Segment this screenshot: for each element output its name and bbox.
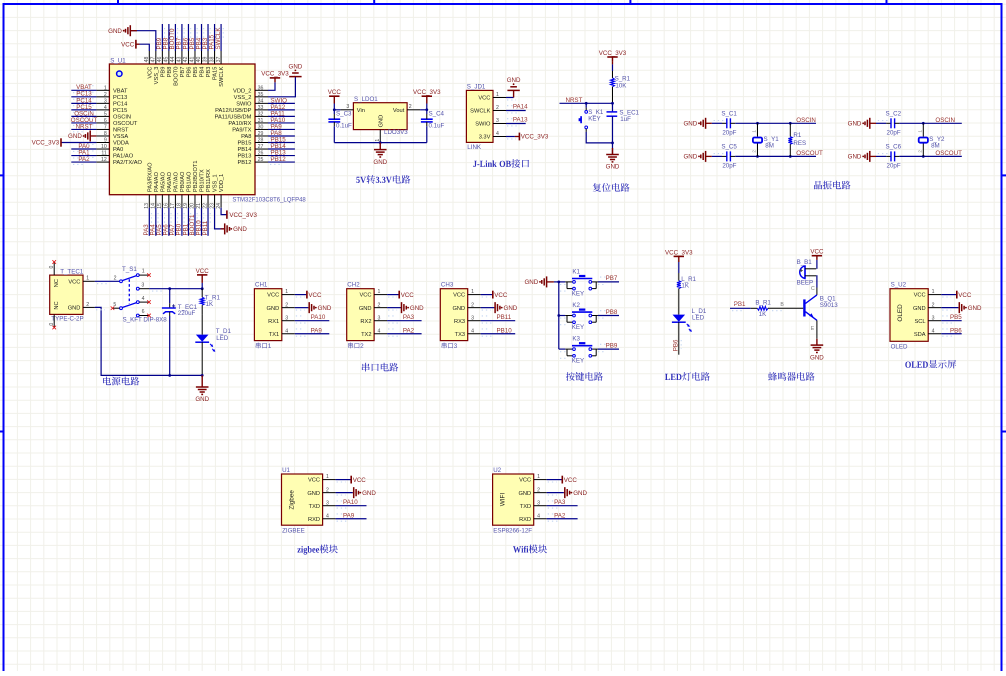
svg-text:VCC: VCC <box>68 279 80 285</box>
svg-text:1: 1 <box>285 289 288 295</box>
MCU right pin 25 PB12 <box>237 157 268 166</box>
MCU bottom pin 22 PB11/RX <box>203 169 212 209</box>
MCU right pin 31 PA10/RX <box>228 118 268 127</box>
svg-text:S_C3: S_C3 <box>336 111 352 118</box>
svg-text:GND: GND <box>233 226 247 233</box>
switch pin 1 (NC, X) <box>139 269 151 277</box>
net PA10 (U1 pin 3) <box>336 499 367 508</box>
svg-text:2: 2 <box>471 302 474 308</box>
resistor R1 RES (crystal feedback) <box>788 122 806 158</box>
svg-text:TX1: TX1 <box>269 332 279 338</box>
net PA2 (U2 pin 4) <box>547 512 578 521</box>
net PA13 at JD1 pin3 <box>506 117 528 126</box>
MCU top pin 39 PB3 <box>203 51 212 77</box>
GND (U2) <box>547 487 588 498</box>
svg-text:PB15: PB15 <box>237 141 251 147</box>
svg-text:20pF: 20pF <box>722 129 736 136</box>
switch pin 4 (X) <box>139 296 151 304</box>
svg-text:KEY: KEY <box>572 358 584 365</box>
S_U2 pin 1 VCC <box>914 289 942 299</box>
svg-text:KEY: KEY <box>572 324 584 331</box>
svg-text:OLED: OLED <box>891 344 908 351</box>
wire to OSCOUT <box>735 150 823 157</box>
svg-text:GND: GND <box>913 306 926 312</box>
svg-text:1K: 1K <box>206 301 214 308</box>
svg-text:GND: GND <box>289 63 303 70</box>
svg-text:T_TEC1: T_TEC1 <box>60 268 84 275</box>
GND at MCU pin 23 VSS_1 <box>215 208 248 235</box>
svg-text:PB9: PB9 <box>606 342 618 349</box>
GND at MCU pin 35 VSS_2 <box>268 63 303 97</box>
LDO ground bus wire <box>334 141 427 144</box>
wire + net label PB15 <box>268 136 295 145</box>
svg-text:26: 26 <box>258 151 264 157</box>
svg-text:SWCLK: SWCLK <box>219 66 225 86</box>
title: OLED display <box>905 360 956 369</box>
TEC1 pin 2 GND <box>68 302 95 312</box>
S_U2 pin 4 SDA <box>914 328 941 338</box>
VCC power port at MCU pin 48 <box>121 40 149 51</box>
svg-text:VCC: VCC <box>147 67 153 79</box>
MCU right pin 30 PA9/TX <box>232 125 268 134</box>
svg-text:VCC: VCC <box>328 89 342 96</box>
svg-text:VCC: VCC <box>308 478 320 484</box>
LED T_D1 <box>195 315 231 377</box>
CH2 pin 2 GND <box>359 302 387 312</box>
TEC1 NC pin top <box>49 260 56 275</box>
svg-text:4: 4 <box>471 328 474 334</box>
svg-text:4: 4 <box>285 328 288 334</box>
svg-text:10K: 10K <box>615 83 627 90</box>
svg-text:8M: 8M <box>765 142 774 149</box>
svg-text:VCC: VCC <box>267 293 279 299</box>
net PB9 wire <box>598 342 619 351</box>
connector U2 body <box>493 467 534 535</box>
MCU right pin 34 SWIO <box>236 98 268 107</box>
buzzer B_B1 BEEP <box>797 259 817 286</box>
wire + net label PB5 <box>189 24 197 51</box>
GND (S_C1 side) <box>683 118 711 129</box>
MCU top pin 46 PB9 <box>157 51 166 77</box>
sub label 串口3 <box>442 343 457 349</box>
MCU right pin 27 PB14 <box>237 144 268 153</box>
net PB6 (S_U2 pin 4) <box>941 327 962 336</box>
VCC power port (U1) <box>336 476 367 484</box>
svg-text:VCC_3V3: VCC_3V3 <box>665 250 693 257</box>
wire to OSCIN <box>899 117 961 124</box>
title: reset circuit <box>593 183 630 192</box>
net PA9 (CH1 pin 4) <box>295 327 330 336</box>
wire + net label VBAT <box>71 84 96 93</box>
svg-text:39: 39 <box>203 57 209 63</box>
svg-text:20pF: 20pF <box>722 162 736 169</box>
svg-text:2: 2 <box>86 302 89 308</box>
svg-text:PB1: PB1 <box>734 301 746 308</box>
CH2 pin 4 TX2 <box>361 328 387 338</box>
net PA3 (U2 pin 3) <box>547 499 578 508</box>
GND (S_C5 side) <box>683 151 711 162</box>
svg-text:GND: GND <box>318 305 332 312</box>
MCU bottom pin 24 VDD_1 <box>216 174 225 209</box>
MCU bottom pin 23 VSS_1 <box>209 174 218 208</box>
wire + net label PC13 <box>71 91 96 100</box>
svg-text:1: 1 <box>375 139 381 142</box>
svg-text:PB11: PB11 <box>497 314 512 321</box>
VCC power port (S_U2) <box>941 291 972 299</box>
VCC power port (power circuit) <box>196 268 210 289</box>
connector S_U2 body <box>890 282 928 351</box>
GND at MCU pin 8 VSSA <box>68 130 96 141</box>
capacitor S_C4 0.1uF <box>421 110 445 143</box>
CH1 pin 2 GND <box>267 302 295 312</box>
USB connector T_TEC1 TYPE-C-2P body <box>50 268 84 322</box>
svg-text:VSS_1: VSS_1 <box>213 174 219 192</box>
GND (CH3) <box>481 302 518 313</box>
wire + net label PA4 <box>150 208 158 236</box>
svg-text:RES: RES <box>793 140 806 147</box>
svg-text:TXD: TXD <box>309 504 320 510</box>
svg-text:1uF: 1uF <box>620 116 631 123</box>
wire + net label SWCLK <box>215 24 223 51</box>
svg-text:3.3V: 3.3V <box>479 135 491 141</box>
connector CH2 body <box>347 282 374 341</box>
svg-text:ESP8266-12F: ESP8266-12F <box>493 528 532 535</box>
svg-text:TX2: TX2 <box>361 332 371 338</box>
wire + net label PA8 <box>268 130 295 139</box>
svg-text:1: 1 <box>917 130 922 133</box>
net PB10 (CH3 pin 4) <box>481 327 516 336</box>
svg-text:CH1: CH1 <box>255 282 268 289</box>
capacitor S_C1 20pF <box>712 110 738 136</box>
MCU bottom pin 15 PA5/AO <box>157 171 166 208</box>
svg-text:PB6: PB6 <box>673 339 680 351</box>
wire + net label PB3 <box>202 24 210 51</box>
GND at JD1 pin1 <box>506 77 521 100</box>
svg-text:5: 5 <box>113 302 116 308</box>
MCU right pin 36 VDD_2 <box>233 85 268 94</box>
svg-text:28: 28 <box>258 138 264 144</box>
MCU top pin 42 PB6 <box>183 51 192 77</box>
svg-text:TYPE-C-2P: TYPE-C-2P <box>51 316 83 323</box>
MCU left pin 9 VDDA <box>96 138 129 147</box>
capacitor S_C6 20pF <box>876 143 902 169</box>
svg-text:2: 2 <box>409 104 412 110</box>
TEC1 NC pin bottom <box>49 314 56 329</box>
svg-text:29: 29 <box>258 131 264 137</box>
JD1 pin 3 SWIO <box>475 118 506 128</box>
svg-text:PA10: PA10 <box>343 499 358 506</box>
CH3 pin 3 RX3 <box>454 315 481 325</box>
svg-text:GND: GND <box>378 115 384 128</box>
svg-text:PB11: PB11 <box>202 220 209 235</box>
svg-text:PA7/AO: PA7/AO <box>174 171 180 192</box>
svg-text:GND: GND <box>810 354 824 361</box>
svg-text:OSCOUT: OSCOUT <box>935 150 962 157</box>
svg-text:PB5: PB5 <box>950 314 962 321</box>
svg-text:PA9: PA9 <box>311 327 323 334</box>
svg-text:PA1/AO: PA1/AO <box>113 154 134 160</box>
sub label 串口1 <box>256 343 271 349</box>
wire + net label PC15 <box>71 104 96 113</box>
svg-text:GND: GND <box>195 396 209 403</box>
title: power circuit <box>103 377 139 386</box>
svg-text:6: 6 <box>104 118 107 124</box>
svg-text:27: 27 <box>258 144 264 150</box>
svg-text:44: 44 <box>170 57 176 63</box>
GND (S_C6 side) <box>848 151 876 162</box>
svg-text:4: 4 <box>932 328 935 334</box>
GND (U1) <box>336 487 377 498</box>
LDO pin 2 <box>407 104 420 110</box>
svg-text:VDD_1: VDD_1 <box>219 174 225 192</box>
svg-text:PB14: PB14 <box>237 147 251 153</box>
MCU left pin 2 PC13 <box>96 92 127 101</box>
resistor L_R1 1K <box>677 273 697 315</box>
svg-text:K1: K1 <box>572 269 580 276</box>
svg-text:VCC: VCC <box>914 293 926 299</box>
MCU top pin 47 VSS_3 <box>151 51 160 84</box>
VCC power port (LDO input) <box>328 89 342 111</box>
VCC_3V3 power port at MCU pin 24 VDD_1 <box>221 208 257 219</box>
svg-text:S_C5: S_C5 <box>721 143 737 150</box>
wire + net label PA9 <box>268 123 295 132</box>
wire + net label PB8 <box>163 24 171 51</box>
svg-text:PB11/RX: PB11/RX <box>206 169 212 192</box>
svg-text:BOOT0: BOOT0 <box>174 67 180 86</box>
svg-text:VCC: VCC <box>810 249 824 256</box>
switch pin 5 (X) <box>111 302 120 310</box>
svg-text:2: 2 <box>326 487 329 493</box>
push button K2 KEY <box>559 302 598 331</box>
svg-text:B_B1: B_B1 <box>797 259 813 266</box>
svg-text:PB4: PB4 <box>200 67 206 78</box>
GND (S_C2 side) <box>848 118 876 129</box>
svg-text:KEY: KEY <box>588 116 600 123</box>
svg-text:S_JD1: S_JD1 <box>467 84 486 91</box>
svg-text:RX1: RX1 <box>268 319 279 325</box>
svg-text:NRST: NRST <box>113 128 129 134</box>
wire + net label OSCIN <box>71 110 96 119</box>
svg-text:1: 1 <box>932 289 935 295</box>
svg-text:VCC: VCC <box>958 292 972 299</box>
svg-text:PA15: PA15 <box>213 67 219 81</box>
svg-text:C: C <box>811 286 815 292</box>
net PB5 (S_U2 pin 3) <box>941 314 962 323</box>
svg-text:220uF: 220uF <box>178 310 196 317</box>
wire + net label SWIO <box>268 97 295 106</box>
svg-text:3: 3 <box>346 104 349 110</box>
svg-text:K2: K2 <box>572 302 580 309</box>
svg-text:3: 3 <box>537 500 540 506</box>
MCU bottom pin 17 PA7/AO <box>170 171 179 208</box>
MCU top pin 37 SWCLK <box>216 51 225 87</box>
wire + net label PA1 <box>71 149 96 158</box>
svg-text:40: 40 <box>196 57 202 63</box>
svg-text:GND: GND <box>452 306 465 312</box>
capacitor S_C2 20pF <box>876 110 902 136</box>
svg-text:U1: U1 <box>282 467 290 474</box>
wire + net label PA2 <box>71 156 96 165</box>
svg-text:GND: GND <box>410 305 424 312</box>
svg-text:PA2/TX/AO: PA2/TX/AO <box>113 160 143 166</box>
net PA3 (CH2 pin 3) <box>387 314 422 323</box>
svg-text:Vin: Vin <box>357 108 365 114</box>
svg-text:PC15: PC15 <box>113 108 127 114</box>
MCU left pin 11 PA1/AO <box>96 151 133 160</box>
svg-text:PB6: PB6 <box>950 327 962 334</box>
svg-text:GND: GND <box>683 121 697 128</box>
svg-text:20pF: 20pF <box>887 129 901 136</box>
svg-text:R1: R1 <box>793 132 801 139</box>
svg-text:S_C2: S_C2 <box>886 110 902 117</box>
VCC_3V3 power port (reset) <box>599 50 627 71</box>
svg-text:2: 2 <box>114 276 117 282</box>
svg-text:GND: GND <box>68 133 82 140</box>
svg-text:VCC_3V3: VCC_3V3 <box>229 212 257 219</box>
svg-text:Zigbee: Zigbee <box>289 490 296 510</box>
VCC_3V3 power port at MCU pin 9 VDDA <box>32 138 97 146</box>
svg-text:PA11/USB/DM: PA11/USB/DM <box>215 115 252 121</box>
MCU bottom pin 13 PA3/RX/AO <box>144 162 153 209</box>
svg-text:PB12: PB12 <box>271 156 287 163</box>
title: zigbee module <box>297 545 338 555</box>
net PA2 (CH2 pin 4) <box>387 327 422 336</box>
wire + net label PB4 <box>195 24 203 51</box>
title: 5V to 3.3V circuit <box>356 175 410 184</box>
svg-text:PB9: PB9 <box>160 67 166 78</box>
svg-text:1K: 1K <box>681 283 689 290</box>
svg-text:S_C1: S_C1 <box>721 110 737 117</box>
svg-text:6: 6 <box>142 309 145 315</box>
svg-text:VCC: VCC <box>308 292 322 299</box>
wire + net label PA5 <box>156 208 164 236</box>
MCU right pin 32 PA11/USB/DM <box>215 112 268 121</box>
svg-text:20pF: 20pF <box>887 162 901 169</box>
MCU left pin 1 VBAT <box>96 85 128 94</box>
svg-text:SWCLK: SWCLK <box>215 27 222 50</box>
svg-text:VCC: VCC <box>401 292 415 299</box>
title: buzzer circuit <box>768 372 815 381</box>
svg-text:PB2/BOOT1: PB2/BOOT1 <box>193 160 199 192</box>
svg-text:GND: GND <box>683 154 697 161</box>
title: crystal circuit <box>814 181 851 190</box>
svg-text:48: 48 <box>144 57 150 63</box>
svg-text:1K: 1K <box>759 311 767 318</box>
svg-text:36: 36 <box>258 85 264 91</box>
MCU left pin 8 VSSA <box>96 131 128 140</box>
svg-text:VCC_3V3: VCC_3V3 <box>32 140 60 147</box>
svg-text:S_U1: S_U1 <box>110 57 126 64</box>
svg-text:GND: GND <box>606 164 620 171</box>
VCC power port (U2) <box>547 476 578 484</box>
svg-text:1: 1 <box>752 130 757 133</box>
svg-text:PA0: PA0 <box>113 147 123 153</box>
VCC power port (buzzer) <box>810 249 824 269</box>
net PB6 (vertical label) <box>673 339 682 351</box>
MCU left pin 12 PA2/TX/AO <box>96 157 142 166</box>
svg-text:TXD: TXD <box>520 504 531 510</box>
VCC_3V3 power port (LED) <box>665 250 693 274</box>
svg-text:GND: GND <box>362 490 376 497</box>
svg-text:PC13: PC13 <box>113 95 127 101</box>
wire + net label PA7 <box>169 208 177 236</box>
wire + net label PA0 <box>71 143 96 152</box>
capacitor S_C3 0.1uF <box>328 110 352 143</box>
svg-text:VDD_2: VDD_2 <box>233 88 251 94</box>
U1 pin 2 GND <box>307 487 335 497</box>
push button S_K1 KEY <box>579 103 613 143</box>
svg-text:7: 7 <box>104 125 107 131</box>
svg-text:PC14: PC14 <box>113 101 127 107</box>
svg-text:PA9: PA9 <box>343 512 355 519</box>
svg-text:PB6: PB6 <box>187 67 193 78</box>
svg-text:OSCIN: OSCIN <box>935 117 955 124</box>
svg-text:RXD: RXD <box>519 517 531 523</box>
MCU top pin 41 PB5 <box>190 51 199 77</box>
wire + net label PB10 <box>195 208 203 236</box>
MCU bottom pin 14 PA4/AO <box>151 171 160 208</box>
svg-text:RX3: RX3 <box>454 319 465 325</box>
VCC power port (CH1) <box>295 291 322 299</box>
switch T_S1 S_KFT DIP-8X8 <box>120 266 168 323</box>
svg-text:S_R1: S_R1 <box>615 76 631 83</box>
svg-text:LDO3V3: LDO3V3 <box>384 129 408 136</box>
svg-text:4: 4 <box>496 131 499 137</box>
svg-text:30: 30 <box>258 125 264 131</box>
svg-text:KEY: KEY <box>572 290 584 297</box>
svg-text:PA13: PA13 <box>513 117 528 124</box>
svg-text:PA4/AO: PA4/AO <box>154 171 160 192</box>
svg-text:S_U2: S_U2 <box>891 282 907 289</box>
svg-text:PA14: PA14 <box>513 104 528 111</box>
net PB8 wire <box>598 309 619 318</box>
svg-text:PA3: PA3 <box>554 499 566 506</box>
net PA9 (U1 pin 4) <box>336 512 367 521</box>
wire + net label BOOT0 <box>169 24 177 51</box>
push button K3 KEY <box>559 336 598 365</box>
svg-text:OLED: OLED <box>897 304 904 322</box>
wire + net label PB1 <box>182 208 190 236</box>
title: Wifi module <box>513 545 547 554</box>
MCU top pin 40 PB4 <box>196 51 205 77</box>
title: J-Link OB interface <box>473 159 529 168</box>
GND at MCU pin 47 VSS_3 <box>108 25 156 51</box>
svg-text:B_R1: B_R1 <box>755 300 771 307</box>
svg-text:NRST: NRST <box>566 97 583 104</box>
svg-text:VSS_3: VSS_3 <box>154 67 160 85</box>
svg-text:LINK: LINK <box>467 144 482 151</box>
svg-text:ZIGBEE: ZIGBEE <box>282 528 305 535</box>
MCU top pin 43 PB7 <box>177 51 186 77</box>
svg-text:9: 9 <box>104 138 107 144</box>
svg-text:0.1uF: 0.1uF <box>336 123 352 130</box>
svg-text:GND: GND <box>524 279 538 286</box>
svg-text:VCC: VCC <box>121 41 135 48</box>
svg-text:42: 42 <box>183 57 189 63</box>
wire + net label PB9 <box>156 24 164 51</box>
svg-text:NC: NC <box>54 301 60 309</box>
wire + net label PA10 <box>268 117 295 126</box>
svg-text:3: 3 <box>104 98 107 104</box>
svg-text:STM32F103C8T6_LQFP48: STM32F103C8T6_LQFP48 <box>232 198 306 204</box>
MCU bottom pin 21 PB10/TX <box>196 169 205 209</box>
MCU left pin 4 PC15 <box>96 105 127 114</box>
svg-text:S_KFT DIP-8X8: S_KFT DIP-8X8 <box>123 316 168 323</box>
MCU right pin 28 PB15 <box>237 138 268 147</box>
svg-text:SWIO: SWIO <box>475 122 491 128</box>
net NRST wire <box>560 97 614 105</box>
svg-text:GND: GND <box>507 77 521 84</box>
